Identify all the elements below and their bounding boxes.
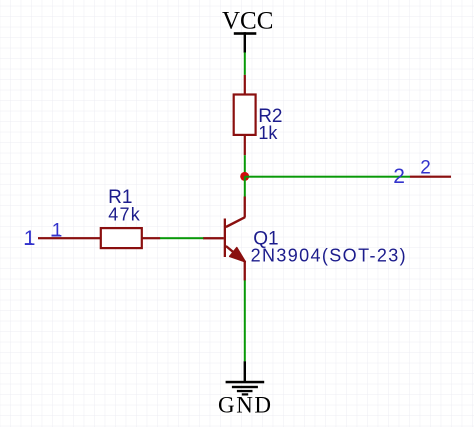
junction node collector <box>240 172 249 181</box>
svg-text:1: 1 <box>24 227 36 250</box>
wire collector node down <box>244 176 246 196</box>
svg-text:2: 2 <box>420 158 431 179</box>
power symbol VCC <box>234 32 256 52</box>
wire VCC to R2 <box>244 52 246 75</box>
port label 1 <box>24 227 36 250</box>
svg-text:VCC: VCC <box>222 8 273 35</box>
svg-text:2N3904(SOT-23): 2N3904(SOT-23) <box>251 246 407 266</box>
wire emitter to GND <box>244 280 246 361</box>
transistor Q1 <box>203 197 246 281</box>
resistor R2 <box>234 75 256 155</box>
wire R1 to Q1 base <box>160 237 203 239</box>
resistor R1 <box>101 228 160 248</box>
port 2 lead <box>410 176 451 178</box>
wire R2 to collector node <box>244 155 246 176</box>
pin number 1 <box>52 220 63 241</box>
svg-text:1k: 1k <box>258 123 278 143</box>
svg-text:GND: GND <box>218 393 273 418</box>
wire collector node to port 2 <box>245 176 410 178</box>
ground GND <box>226 361 265 395</box>
svg-text:2: 2 <box>393 165 405 188</box>
svg-text:47k: 47k <box>108 205 141 225</box>
port 1 lead <box>38 237 101 239</box>
svg-text:1: 1 <box>52 220 63 241</box>
